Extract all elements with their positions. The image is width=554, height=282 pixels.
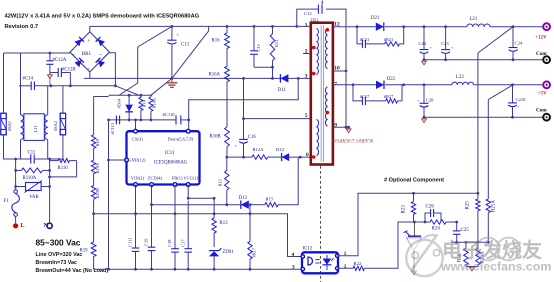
svg-text:R24: R24 — [432, 226, 441, 231]
node C28 bottom — [423, 116, 426, 119]
surge arrester #SA2 — [53, 113, 65, 135]
svg-text:#C27: #C27 — [360, 94, 370, 99]
capacitor C19 — [144, 238, 156, 251]
resistor R23 — [402, 193, 416, 222]
svg-text:R18: R18 — [95, 138, 100, 146]
svg-text:1: 1 — [305, 22, 308, 28]
node R23 top — [412, 192, 415, 195]
pin ZCD — [150, 183, 154, 187]
wire Com5 rail — [424, 116, 544, 118]
node C11 right — [48, 158, 51, 161]
svg-text:VCC(11): VCC(11) — [183, 176, 200, 181]
wire comp net — [414, 221, 457, 223]
node D14 top — [128, 94, 131, 97]
node ZD01 bottom — [213, 268, 216, 271]
svg-text:C13: C13 — [181, 43, 190, 48]
wire ZCD aux net — [152, 157, 299, 205]
node C19 bottom — [150, 268, 153, 271]
resistor R13 — [212, 198, 228, 247]
pin stub 2 — [303, 53, 311, 55]
svg-text:R19: R19 — [80, 249, 89, 254]
pin label opto2 — [344, 264, 347, 270]
svg-text:D21: D21 — [371, 16, 380, 21]
terminal N — [44, 223, 53, 229]
pin opto 4 — [301, 255, 304, 258]
svg-text:85~300 Vac: 85~300 Vac — [36, 238, 81, 248]
svg-text:R13: R13 — [220, 221, 229, 226]
node R25A bottom — [487, 241, 490, 244]
svg-text:BrownOut=44 Vac (No Load): BrownOut=44 Vac (No Load) — [36, 268, 109, 274]
svg-text:www.elecfans.com: www.elecfans.com — [440, 260, 551, 274]
pin VIN — [134, 183, 138, 187]
svg-text:~: ~ — [99, 53, 102, 58]
inductor L22 — [452, 75, 474, 85]
snubber #C27 #R27 — [353, 85, 402, 105]
svg-text:VIN(2): VIN(2) — [131, 176, 145, 181]
wire VCC net — [188, 185, 214, 199]
wire 5V sense — [488, 85, 513, 199]
svg-text:电子发烧友: 电子发烧友 — [442, 238, 542, 262]
polarity dot pin12 — [326, 28, 330, 32]
pin CS — [134, 129, 138, 133]
capacitor #C110 — [163, 112, 181, 125]
optocoupler IC12 box — [302, 247, 338, 274]
node VCC corner — [187, 197, 190, 200]
terminal L — [13, 223, 25, 229]
svg-text:R25A: R25A — [492, 200, 497, 212]
terminal +5V — [538, 81, 550, 96]
node C13 bottom — [171, 77, 174, 80]
node FB cross — [174, 212, 177, 215]
svg-text:ZCD(4): ZCD(4) — [148, 176, 163, 181]
node R14 bottom — [140, 119, 143, 122]
wire pin9 — [333, 126, 349, 128]
svg-text:ICE5QR0680AG: ICE5QR0680AG — [154, 160, 188, 165]
fuse F1 — [4, 190, 20, 217]
node N-line tap — [114, 84, 117, 87]
svg-text:#C21: #C21 — [360, 37, 370, 42]
terminal +12V — [535, 23, 550, 40]
resistor R16A — [209, 49, 230, 82]
snubber #C21 #R21 — [357, 27, 404, 48]
node R26 top — [465, 241, 468, 244]
node pin5 riser — [242, 77, 245, 80]
resistor R14 — [139, 95, 146, 120]
node C12A top — [49, 52, 52, 55]
svg-text:# Optional Component: # Optional Component — [384, 178, 444, 184]
resistor #R17 — [248, 214, 257, 270]
wire L-terminal to fuse — [15, 159, 17, 223]
resistor R110A — [16, 168, 50, 181]
node R14A bottom — [150, 119, 153, 122]
svg-text:C25: C25 — [461, 228, 470, 233]
svg-text:#R21: #R21 — [384, 37, 394, 42]
svg-text:~: ~ — [72, 53, 75, 58]
wire sense rail — [94, 213, 250, 215]
svg-text:R15: R15 — [266, 196, 274, 201]
resistor R25 — [466, 193, 481, 242]
capacitor #C112 — [110, 116, 119, 135]
isolation dashed line — [320, 166, 322, 282]
capacitor #C12A — [46, 53, 67, 75]
node C17 bottom — [187, 268, 190, 271]
diode D22 — [376, 77, 396, 89]
wire OVP diagonal — [151, 26, 209, 95]
wire R18-R18A — [93, 148, 95, 160]
svg-text:IC12: IC12 — [303, 247, 313, 252]
wire 12V sense — [478, 27, 513, 194]
wire N diag — [115, 86, 138, 95]
node R16 top — [226, 25, 229, 28]
ground primary — [166, 78, 177, 87]
node C22 top — [423, 25, 426, 28]
node C15 top — [253, 25, 256, 28]
zener ZD01 — [207, 248, 234, 269]
wire pin12 rail — [333, 26, 544, 28]
wire R18B-R19 — [93, 199, 95, 242]
resistor R26 — [458, 242, 469, 266]
sgnd marker C28 — [422, 119, 427, 123]
resistor R22 — [353, 261, 364, 271]
node VIN divider tap — [92, 212, 95, 215]
resistor R26A — [476, 242, 486, 266]
svg-text:42W(12V x 3.41A and 5V x 0.2A): 42W(12V x 3.41A and 5V x 0.2A) SMPS demo… — [5, 14, 200, 20]
pin label 2 — [305, 49, 308, 55]
node sense-rail right — [249, 212, 252, 215]
pin label 12 — [334, 22, 340, 28]
earth marker C12A — [48, 75, 53, 86]
node VCC tee — [213, 197, 216, 200]
opto LED — [308, 257, 320, 265]
svg-text:315uH(50:7:3:8)EF30: 315uH(50:7:3:8)EF30 — [332, 140, 374, 145]
svg-text:L22: L22 — [456, 75, 464, 80]
wire bridge minus riser — [89, 72, 91, 79]
pin label opto4 — [292, 252, 295, 258]
svg-text:#C14: #C14 — [23, 77, 34, 82]
diode D12 — [276, 147, 289, 161]
wire R18A-R18B — [93, 174, 95, 186]
node C23 top — [444, 25, 447, 28]
svg-text:Com: Com — [536, 51, 547, 57]
node pin9 — [347, 126, 350, 129]
svg-text:#D14: #D14 — [117, 98, 122, 109]
wire primary gnd bus — [84, 77, 280, 79]
wire R26 bottom net — [466, 266, 478, 268]
node D12 out — [299, 156, 302, 159]
node ZCD tap — [150, 203, 153, 206]
op-amp IC11 box — [127, 131, 201, 184]
node R110A right — [48, 169, 51, 172]
node snub21 left — [356, 25, 359, 28]
node R12 bottom — [225, 203, 228, 206]
inductor L21 — [467, 17, 490, 27]
svg-text:#C12A: #C12A — [53, 58, 67, 63]
wire SA2 top — [62, 86, 64, 113]
resistor R25A — [486, 199, 496, 242]
svg-text:C210: C210 — [516, 97, 527, 102]
svg-text:Com: Com — [536, 108, 547, 114]
node CS riser — [134, 119, 137, 122]
node C110 right — [187, 119, 190, 122]
node D11 cathode — [271, 77, 274, 80]
capacitor C18 — [167, 239, 179, 252]
capacitor #C12B — [50, 68, 76, 86]
resistor R15 — [265, 196, 278, 207]
pin opto 1 — [336, 254, 339, 257]
wire R22 riser — [364, 222, 413, 268]
node snub21 right — [402, 25, 405, 28]
resistor R16B — [210, 82, 230, 157]
svg-text:R23: R23 — [402, 205, 407, 214]
svg-text:C22: C22 — [419, 41, 427, 46]
resistor R110 — [50, 159, 77, 177]
capacitor C23 — [441, 27, 454, 60]
polarity dot pin7 — [326, 111, 330, 115]
resistor R18B — [91, 186, 100, 200]
wire opto pin1 feed — [337, 193, 478, 255]
wire diag bus-to-vert — [119, 26, 172, 95]
svg-text:FB(1): FB(1) — [172, 176, 183, 181]
wire GND riser — [108, 120, 110, 269]
pin GND — [125, 158, 129, 162]
capacitor C111 — [128, 238, 140, 252]
polarity dot pin6 — [312, 155, 316, 159]
resistor R11 — [270, 26, 279, 67]
svg-text:R14A: R14A — [151, 97, 156, 108]
node R17 bottom — [249, 268, 252, 271]
pin label 6 — [306, 152, 309, 158]
svg-text:C12: C12 — [304, 11, 312, 16]
capacitor #C14 — [19, 77, 51, 91]
svg-text:R14: R14 — [141, 99, 146, 107]
node C24 bottom — [512, 58, 515, 61]
watermark — [406, 235, 551, 277]
node 12V sense join — [477, 192, 480, 195]
pin label 10 — [334, 65, 340, 71]
wire SA2 bottom — [50, 135, 63, 159]
svg-text:3: 3 — [292, 264, 295, 270]
resistor R18A — [91, 160, 100, 174]
node GND rail — [107, 268, 110, 271]
pin label opto3 — [292, 264, 295, 270]
varistor VAR — [16, 181, 50, 200]
node drain tap — [297, 77, 300, 80]
wire L line top — [4, 52, 71, 54]
wire aux top net — [227, 156, 311, 158]
node C12 tap — [295, 25, 298, 28]
node C12B right — [69, 84, 72, 87]
node VIN cross — [134, 212, 137, 215]
svg-text:C26: C26 — [426, 205, 435, 210]
svg-text:#C112: #C112 — [110, 123, 115, 135]
svg-text:BrownIn=73 Vac: BrownIn=73 Vac — [36, 260, 78, 266]
node C24 top — [512, 25, 515, 28]
Y-capacitor C12 net — [297, 1, 346, 128]
svg-text:R110A: R110A — [23, 176, 37, 181]
capacitor C17 — [180, 239, 192, 252]
wire pin7 rail — [333, 84, 544, 86]
node C210 bottom — [511, 116, 514, 119]
capacitor C210 — [508, 85, 526, 117]
svg-text:#C12B: #C12B — [62, 68, 76, 73]
node C111 bottom — [134, 268, 137, 271]
pin label 5 — [305, 113, 308, 119]
wire clamp joiner — [254, 67, 273, 78]
svg-text:R11: R11 — [274, 40, 279, 47]
wire N line — [51, 85, 116, 87]
svg-text:R16: R16 — [212, 39, 221, 44]
node pin9 join — [345, 126, 348, 129]
wire REF rail — [451, 241, 488, 243]
node C16 top — [242, 117, 245, 120]
svg-text:ZD01: ZD01 — [223, 250, 235, 255]
wire drain net — [189, 78, 299, 129]
node GND tee — [107, 159, 110, 162]
node C12A bottom — [50, 84, 53, 87]
wire gnd rail — [94, 268, 302, 270]
capacitor C15 — [250, 26, 261, 67]
svg-text:D13: D13 — [239, 196, 248, 201]
svg-text:4: 4 — [292, 252, 295, 258]
node R11 top — [271, 25, 274, 28]
node VAR right — [48, 185, 51, 188]
node C23 bottom — [444, 58, 447, 61]
transformer TR1 — [311, 18, 333, 165]
svg-text:R25: R25 — [466, 201, 471, 210]
svg-text:3: 3 — [305, 74, 308, 80]
sgnd marker C22 — [422, 61, 427, 65]
resistor R16 — [212, 26, 230, 48]
wire CS net — [109, 119, 189, 121]
svg-text:R110: R110 — [58, 166, 69, 171]
node D13 anode — [249, 203, 252, 206]
node D14 bottom — [128, 119, 131, 122]
node comp left — [424, 221, 427, 224]
resistor R19 — [80, 242, 97, 257]
wire pin3 entry — [288, 77, 310, 79]
wire bridge AC right loop — [110, 53, 116, 86]
svg-text:R12A: R12A — [253, 147, 265, 152]
svg-text:Line OVP=320 Vac: Line OVP=320 Vac — [36, 252, 83, 258]
node C210 top — [511, 83, 514, 86]
svg-text:C111: C111 — [128, 238, 133, 247]
bridge rectifier BR1 — [70, 32, 110, 72]
terminal Com12 — [536, 51, 550, 63]
svg-text:+: + — [87, 38, 90, 44]
wire VIN sense header — [109, 94, 153, 96]
node C28 top — [423, 83, 426, 86]
node C22 bottom — [423, 58, 426, 61]
transformer spec text — [332, 140, 374, 145]
svg-text:CS(3): CS(3) — [132, 137, 143, 142]
wire CS pin riser — [135, 120, 137, 129]
svg-text:D22: D22 — [387, 77, 396, 82]
svg-text:R12: R12 — [218, 179, 223, 186]
svg-text:C11: C11 — [28, 151, 36, 156]
wire GND pin tee — [109, 159, 127, 161]
svg-text:IC11: IC11 — [165, 151, 175, 156]
svg-text:VAR: VAR — [29, 195, 39, 200]
node VAR left — [14, 185, 17, 188]
wire VIN line — [135, 185, 137, 270]
common-mode choke L11 — [21, 114, 48, 141]
capacitor C26 — [425, 205, 441, 223]
polarity dot pin3 — [312, 72, 316, 76]
node C18 bottom — [174, 268, 177, 271]
pin FB — [173, 183, 177, 187]
node pin10 join — [345, 70, 348, 73]
svg-text:#SA1: #SA1 — [7, 121, 12, 131]
node C16 bottom — [242, 156, 245, 159]
pin opto 2 — [336, 267, 339, 270]
surge arrester #SA1 — [1, 113, 12, 135]
svg-text:+12V: +12V — [535, 34, 547, 40]
wire R19 bottom — [93, 257, 95, 270]
svg-text:C16: C16 — [248, 135, 257, 140]
svg-text:L21: L21 — [470, 17, 478, 22]
wire D13 anode riser — [249, 205, 251, 214]
node R25 bottom — [477, 241, 480, 244]
svg-text:R16A: R16A — [209, 73, 221, 78]
wire R18 feed — [94, 97, 109, 135]
svg-text:5: 5 — [305, 113, 308, 119]
svg-text:L11: L11 — [33, 125, 38, 133]
pin opto 3 — [301, 267, 304, 270]
resistor R12A — [252, 147, 268, 159]
pin Drain — [186, 129, 190, 133]
svg-text:D12: D12 — [276, 147, 285, 152]
diode D13 — [239, 196, 249, 209]
node C11 left — [14, 158, 17, 161]
svg-text:#SA2: #SA2 — [53, 121, 58, 131]
svg-text:D11: D11 — [278, 88, 287, 93]
svg-text:10: 10 — [334, 65, 340, 71]
node R110 return — [48, 176, 51, 179]
svg-text:N: N — [44, 223, 49, 229]
svg-text:C15: C15 — [256, 43, 261, 51]
capacitor C16 — [234, 119, 256, 158]
svg-text:BR1: BR1 — [82, 52, 92, 57]
capacitor C25 — [453, 222, 469, 242]
diode #D14 — [117, 95, 133, 120]
capacitor C22 — [419, 27, 433, 60]
node C25 bottom — [455, 241, 458, 244]
node C25 top — [455, 221, 458, 224]
wire pin5 net — [244, 78, 311, 118]
capacitor C28 — [417, 85, 434, 117]
node R110A left — [14, 169, 17, 172]
diode D11 — [278, 74, 289, 93]
svg-text:2: 2 — [344, 264, 347, 270]
resistor R18 — [91, 135, 100, 149]
shunt regulator TL431 — [403, 222, 421, 271]
svg-text:R22: R22 — [354, 261, 362, 266]
opto transistor — [323, 255, 334, 270]
svg-text:#R17: #R17 — [252, 247, 257, 257]
svg-text:C24: C24 — [515, 41, 523, 46]
svg-text:C19: C19 — [144, 238, 149, 246]
svg-text:6: 6 — [306, 152, 309, 158]
pin VCC — [186, 183, 190, 187]
capacitor C11 — [16, 151, 50, 164]
wire VCC line down — [187, 201, 189, 270]
input ratings text — [36, 238, 109, 274]
svg-text:R16B: R16B — [210, 135, 221, 140]
node clamp join — [271, 66, 274, 69]
wire SA1 bottom — [4, 135, 17, 159]
node C112 left — [107, 119, 110, 122]
svg-text:TR1: TR1 — [311, 18, 319, 23]
